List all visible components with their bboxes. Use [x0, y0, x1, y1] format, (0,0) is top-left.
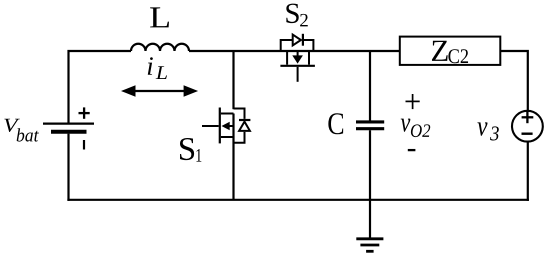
wire: v3 bottom lead to bottom rail: [527, 142, 529, 201]
body diode of S1: [234, 109, 251, 143]
transistor S2 (MOSFET, horizontal): [280, 51, 315, 82]
arrow i_L (double-headed): [121, 85, 198, 96]
label S1: [180, 138, 201, 162]
battery plus sign: [79, 107, 90, 118]
ground stem: [369, 200, 371, 238]
wire: top rail from inductor past S2 and node C to Z_C2: [189, 50, 400, 52]
label v_O2: [401, 119, 431, 137]
wire: bottom rail: [67, 199, 529, 201]
label + of v_O2: [406, 94, 420, 109]
label C: [328, 113, 343, 134]
wire: capacitor C top lead from top rail node: [369, 51, 371, 121]
wire: battery negative lead down to bottom rail: [67, 134, 69, 201]
label - of v_O2: [408, 149, 416, 151]
wire: Z_C2 output to top-right corner down to v3: [500, 51, 528, 111]
source v3 circle: [512, 111, 543, 142]
capacitor C plates: [356, 122, 384, 129]
inductor L: [131, 44, 189, 51]
label v3: [477, 122, 498, 140]
label Z_C2: [432, 41, 468, 63]
label S2: [286, 4, 307, 27]
transistor S1 (MOSFET): [202, 108, 234, 144]
battery V_bat plates: [43, 124, 94, 132]
wire: S1 drain branch from top rail node: [232, 51, 234, 109]
impedance block Z_C2: [400, 37, 501, 65]
wire: S1 main vertical down to bottom rail: [232, 114, 234, 201]
S2 arrow (pointing down): [292, 55, 303, 63]
label V_bat: [4, 119, 39, 142]
S1 arrow (pointing left): [222, 122, 230, 131]
wire: battery positive lead, top-left corner and top rail to inductor: [69, 51, 132, 123]
battery minus mark: [83, 140, 85, 150]
ground symbol bars: [356, 239, 383, 252]
label i_L: [148, 57, 167, 79]
label L: [150, 7, 169, 27]
wire: capacitor C bottom lead to bottom rail: [369, 130, 371, 200]
v3 minus sign: [522, 132, 533, 134]
body diode of S2: [281, 34, 314, 51]
v3 plus sign: [522, 111, 534, 123]
